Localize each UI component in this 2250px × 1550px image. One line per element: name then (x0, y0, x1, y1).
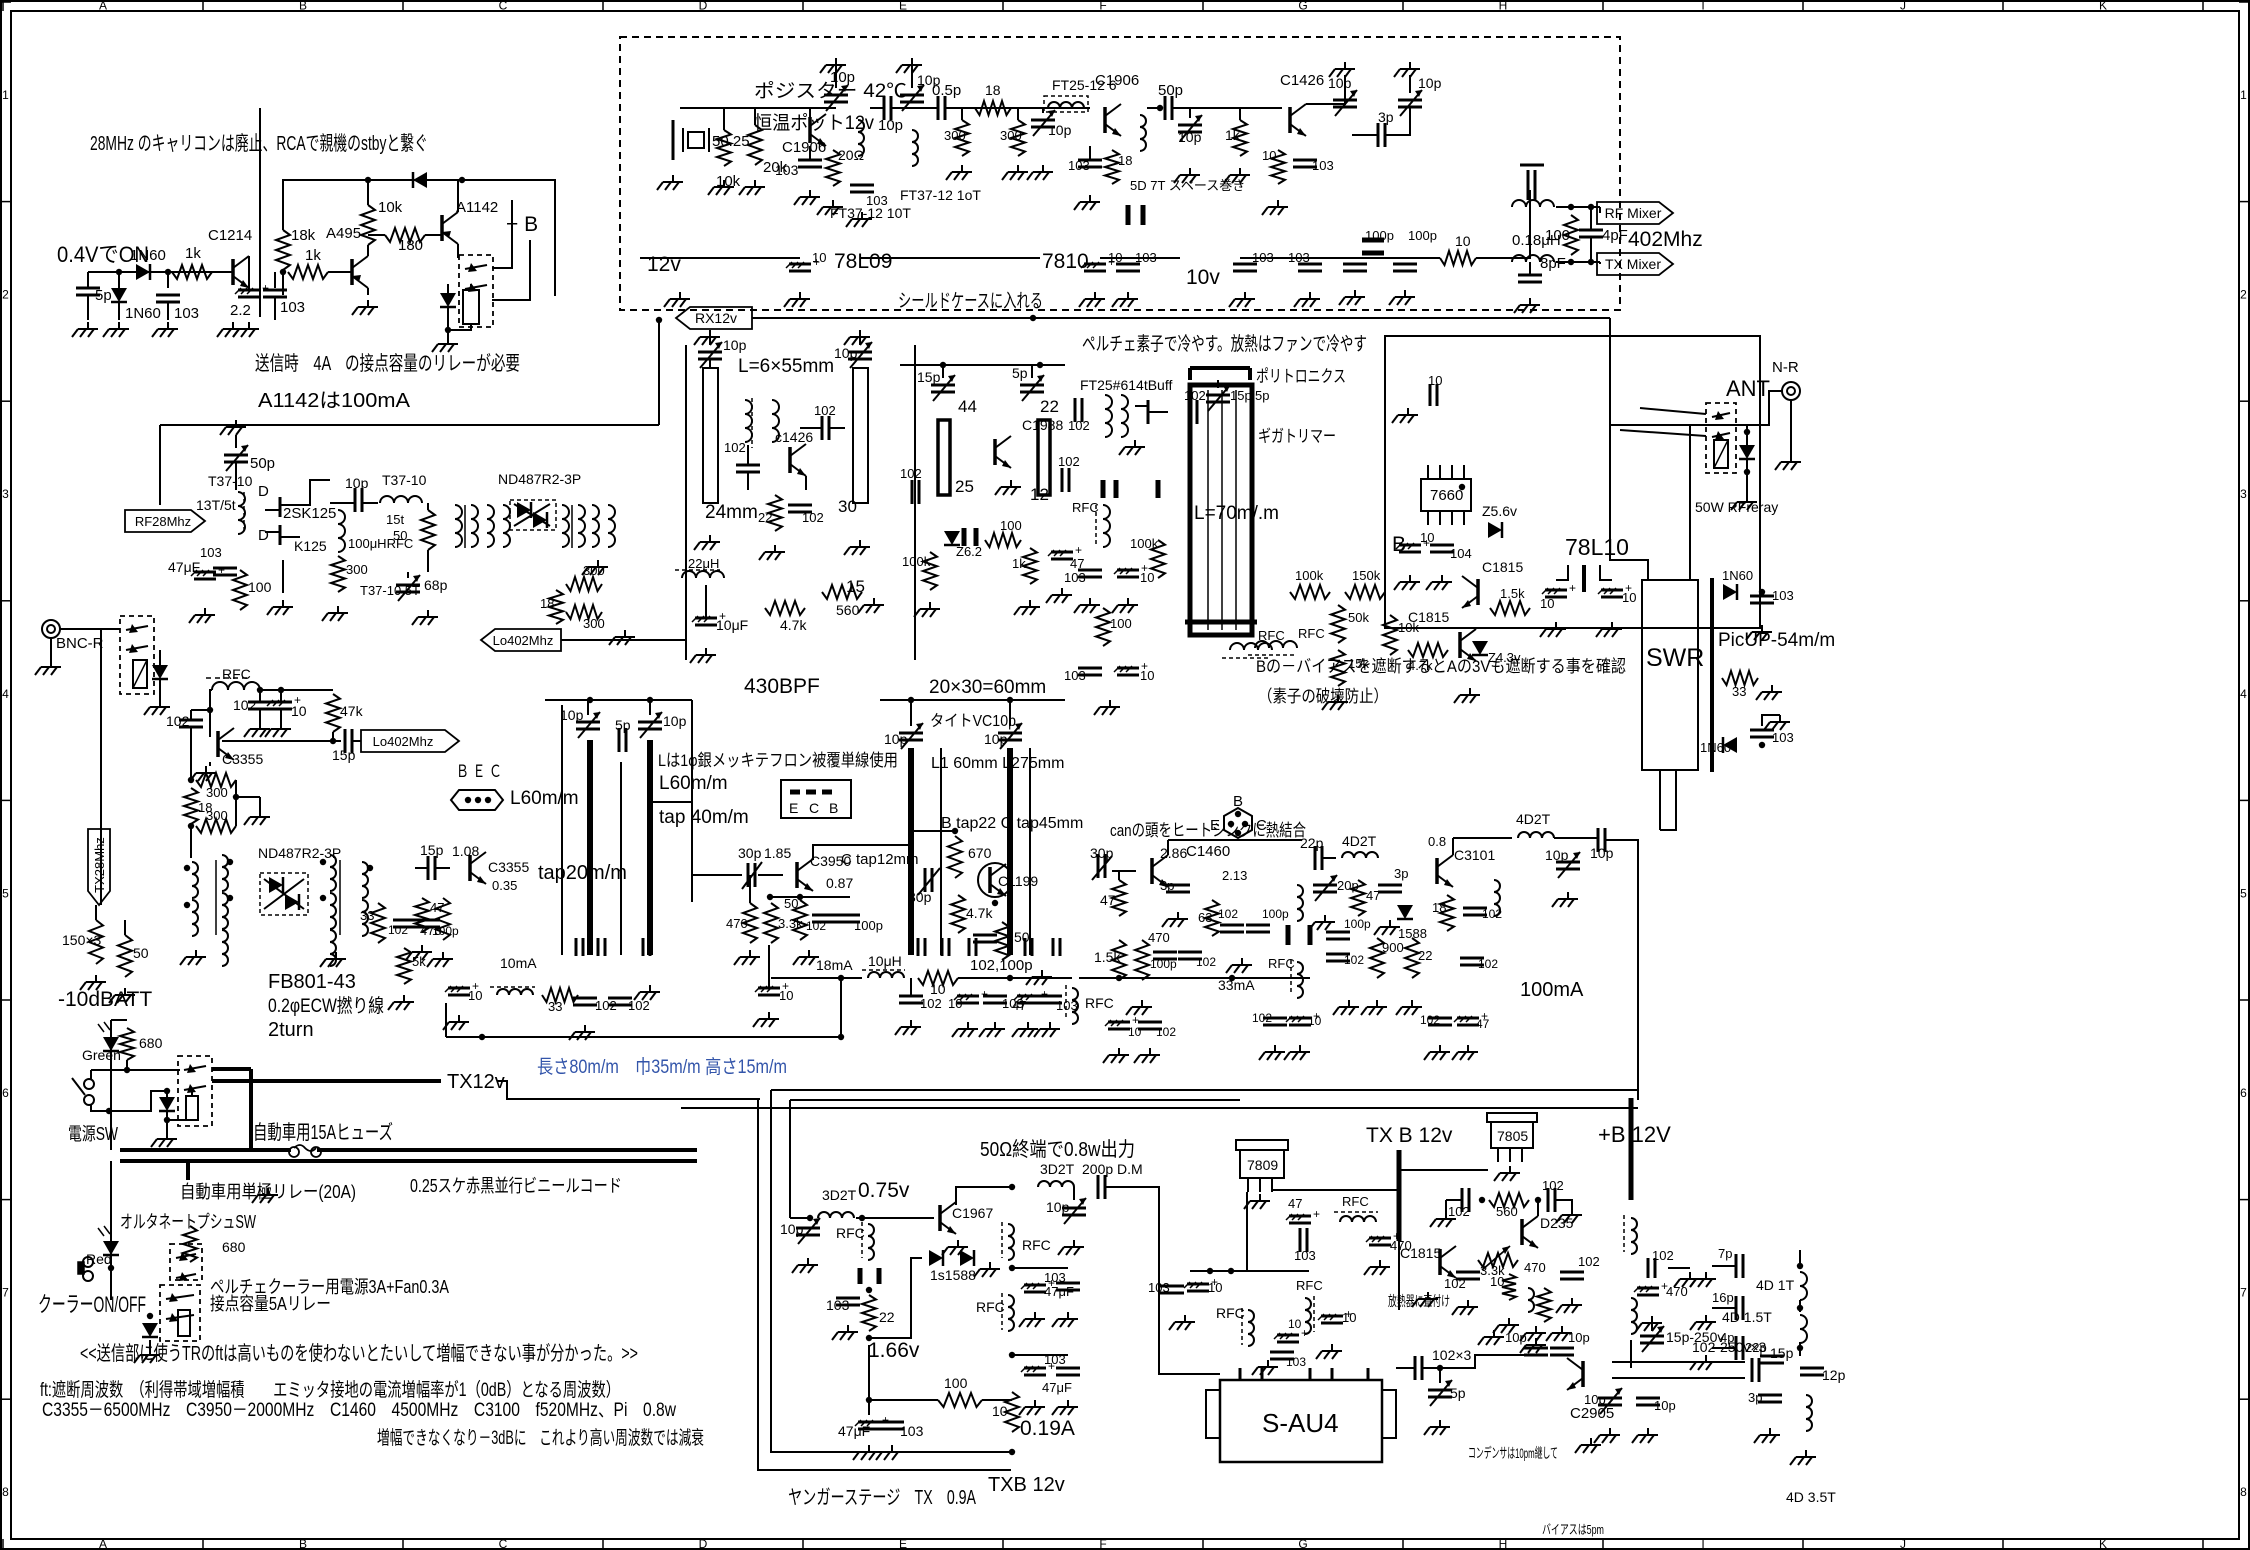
svg-text:B: B (299, 1537, 307, 1550)
capacitor 0.5p (925, 82, 961, 120)
svg-text:10: 10 (1622, 590, 1636, 605)
svg-text:7: 7 (2, 1286, 9, 1300)
transistor C1988 (995, 417, 1063, 468)
svg-text:Red: Red (86, 1251, 112, 1267)
svg-text:C1906: C1906 (1095, 72, 1139, 89)
svg-text:100p: 100p (854, 918, 883, 933)
svg-text:102: 102 (802, 510, 824, 525)
capacitor 103 r2 (1034, 996, 1078, 1037)
svg-text:103: 103 (866, 193, 888, 208)
svg-text:B: B (829, 800, 838, 816)
resistor 100k h (1290, 568, 1330, 599)
capacitor 102 r1 (895, 978, 942, 1035)
svg-text:470: 470 (1390, 1238, 1412, 1253)
svg-text:78L10: 78L10 (1565, 534, 1629, 560)
trimmer 30p r (908, 868, 940, 905)
svg-text:100: 100 (1110, 616, 1132, 631)
inductor FT37-12 1oT (900, 130, 981, 203)
label 10 t (1490, 1274, 1519, 1333)
svg-text:RFC: RFC (976, 1299, 1005, 1315)
svg-text:102: 102 (166, 713, 190, 729)
crystal 50.25 (673, 120, 750, 160)
capacitor 2.2 ecap (230, 256, 269, 319)
bias box (1385, 336, 1760, 628)
svg-text:放熱器に直付け: 放熱器に直付け (1388, 1293, 1450, 1309)
capacitor 100p m (1150, 952, 1177, 971)
wire down to bus (462, 180, 555, 296)
svg-text:30p: 30p (1090, 845, 1114, 861)
inductor T37-10 in (238, 483, 269, 544)
diode 1N60 shunt (111, 269, 161, 322)
transistor A495 (326, 225, 368, 288)
ic 7660 (1421, 465, 1471, 525)
capacitor 102x3 (1396, 1347, 1472, 1380)
svg-text:44: 44 (958, 397, 977, 416)
capacitor 200p (1098, 1175, 1105, 1199)
inductor FT37-12 10T (830, 120, 911, 221)
svg-text:2SK125: 2SK125 (283, 505, 336, 522)
svg-text:68p: 68p (424, 577, 448, 593)
trimmer 30p b (742, 862, 762, 889)
node drv4 (1009, 1449, 1015, 1455)
capacitor 103c (850, 185, 888, 208)
resistor 10 rail (1440, 233, 1476, 265)
svg-text:102: 102 (1196, 955, 1216, 969)
capacitor 102 t1 (1430, 1188, 1470, 1227)
svg-text:10p: 10p (1584, 1392, 1606, 1407)
diode Z4.3v (1472, 641, 1521, 665)
capacitor 103 buf2 (1064, 668, 1102, 683)
wire fet drains (300, 480, 330, 505)
wire coil2 (448, 324, 471, 330)
capacitor 47 reg (1286, 1196, 1320, 1223)
svg-text:L60m/m: L60m/m (659, 773, 728, 794)
wire drv base (856, 1215, 934, 1221)
wire flagstub2 (1599, 262, 1601, 264)
svg-text:103: 103 (1064, 668, 1086, 683)
relay coil box (463, 290, 479, 324)
resistor 470 c39 (726, 875, 757, 943)
capacitor 10p q2 (1550, 1330, 1590, 1355)
svg-text:4D 1T: 4D 1T (1756, 1277, 1795, 1293)
svg-text:30p: 30p (738, 845, 762, 861)
wire thick drop (249, 1069, 253, 1150)
resistor 33 s (1722, 671, 1758, 699)
inductor 100uHRFC (338, 510, 413, 552)
svg-text:103: 103 (775, 162, 799, 178)
svg-text:+: + (1569, 581, 1576, 595)
ground g12 (1339, 290, 1365, 305)
ground rx relay (144, 700, 170, 715)
ecap 47 m (1452, 1009, 1490, 1060)
wire drv2 row (1012, 1267, 1068, 1269)
ground xfmr (582, 560, 608, 575)
svg-text:RFC: RFC (1022, 1237, 1051, 1253)
ecap 10 l09 (784, 250, 826, 307)
inductor 4D2T b (1516, 811, 1554, 838)
svg-text:100p: 100p (1344, 917, 1371, 931)
flag TX Mixer (1597, 253, 1673, 275)
svg-text:680: 680 (222, 1239, 246, 1255)
svg-text:50k: 50k (1348, 610, 1369, 625)
wire cavf top (900, 362, 1065, 368)
ecap 10 buf (1112, 561, 1154, 613)
svg-text:TX28Mhz: TX28Mhz (92, 837, 107, 893)
svg-text:300: 300 (583, 563, 605, 578)
svg-text:102: 102 (1444, 1276, 1466, 1291)
stripline left edge (561, 705, 563, 955)
resistor 100 mix (1545, 204, 1578, 265)
wire c3950 coll (813, 845, 911, 860)
svg-text:RFC: RFC (222, 666, 251, 682)
svg-text:10p: 10p (1545, 847, 1569, 863)
svg-text:C3355: C3355 (222, 751, 263, 767)
capacitor 103 buf (1064, 570, 1102, 613)
ground NR (1775, 400, 1801, 470)
svg-text:4.7k: 4.7k (966, 905, 993, 921)
thick line swr (1710, 578, 1714, 772)
svg-text:FB801-43: FB801-43 (268, 971, 356, 993)
svg-text:30p: 30p (908, 889, 932, 905)
flag RF Mixer (1597, 202, 1673, 224)
ground gnd rfc (322, 606, 348, 621)
svg-text:RF28Mhz: RF28Mhz (135, 514, 191, 529)
inductor 4D1T (1756, 1272, 1807, 1300)
capacitor 102 m (1178, 952, 1216, 969)
capacitor 50p (1157, 82, 1183, 120)
svg-text:1.5k: 1.5k (1500, 586, 1525, 601)
wire tx12 elbow (497, 1081, 760, 1099)
transistor C1967 (940, 1202, 993, 1255)
trimmer 10p a (824, 65, 855, 111)
wire swr bottom (1659, 770, 1661, 830)
capacitor 4p (1690, 1330, 1743, 1370)
svg-text:5k: 5k (412, 954, 426, 969)
svg-text:103: 103 (1044, 1270, 1066, 1285)
svg-text:RFC: RFC (1072, 500, 1099, 515)
svg-text:N-R: N-R (1772, 359, 1799, 376)
svg-text:0.8: 0.8 (1428, 834, 1446, 849)
capacitor 5p strip (615, 717, 631, 752)
wire flagstub1 (1599, 207, 1601, 213)
wire fet src (282, 560, 284, 593)
capacitor 102 f2 (1058, 454, 1080, 492)
svg-text:10p: 10p (1590, 845, 1614, 861)
svg-text:102: 102 (1652, 1248, 1674, 1263)
wire drv fb (869, 1258, 922, 1338)
resistor 20ohm (826, 147, 864, 186)
varistor ant (1714, 440, 1728, 468)
svg-text:5: 5 (2, 886, 9, 900)
svg-text:B: B (1392, 533, 1406, 556)
inductor RFC p1 (1216, 1305, 1254, 1346)
svg-text:10p: 10p (1418, 75, 1442, 91)
resistor 22 m (1405, 938, 1432, 978)
pot 50k (1331, 605, 1369, 643)
svg-text:接点容量5Aリレー: 接点容量5Aリレー (210, 1294, 331, 1314)
svg-text:RX12v: RX12v (695, 310, 737, 326)
svg-text:Z6.2: Z6.2 (956, 544, 982, 559)
svg-text:4D2T: 4D2T (1516, 811, 1551, 827)
svg-text:100μHRFC: 100μHRFC (348, 536, 413, 551)
wire c3950 base (758, 874, 783, 876)
ground g4 (1002, 165, 1028, 180)
svg-text:47: 47 (1100, 892, 1116, 908)
wire red vert (110, 1161, 112, 1300)
svg-text:300: 300 (1000, 128, 1022, 143)
capacitor 102 m2 (1218, 907, 1244, 932)
box SWR (1642, 580, 1698, 770)
ecap 10 h3 (1540, 581, 1576, 637)
ground g5 (1027, 165, 1053, 180)
svg-text:24mm: 24mm (705, 502, 758, 523)
diode 1588 (1397, 905, 1427, 941)
svg-text:2.2: 2.2 (230, 302, 251, 319)
svg-text:E: E (899, 1537, 907, 1550)
resistor 1k input (172, 245, 212, 279)
inductor m coil (1297, 885, 1303, 921)
svg-text:103: 103 (1068, 158, 1090, 173)
capacitor 103 drv3 (1044, 1270, 1080, 1327)
ground ant (1731, 495, 1757, 510)
capacitor 103 s2 (1750, 730, 1794, 748)
svg-text:RF Mixer: RF Mixer (1605, 205, 1662, 221)
wire tap40 (650, 801, 692, 803)
svg-text:バイアスは5pm: バイアスは5pm (1542, 1522, 1604, 1537)
svg-text:102: 102 (806, 919, 826, 933)
ground cav2b (844, 540, 870, 555)
wire drv out (1105, 1187, 1220, 1374)
svg-text:D: D (699, 0, 708, 13)
resistor 1.5k m (1094, 940, 1126, 980)
resistor 100 buf (1096, 608, 1132, 646)
svg-text:C1426: C1426 (1280, 72, 1324, 89)
resistor 470 m (1135, 930, 1170, 980)
svg-text:1.5k: 1.5k (1094, 949, 1121, 965)
resistor 100 rx (233, 570, 272, 610)
wire mix rail (446, 1034, 844, 1040)
transformer buf (1105, 395, 1128, 437)
node drv3 (1009, 1352, 1015, 1358)
svg-text:7: 7 (2240, 1286, 2247, 1300)
svg-text:10p: 10p (1178, 129, 1202, 145)
wire relay left (100, 648, 102, 905)
svg-text:B tap22 C tap45mm: B tap22 C tap45mm (941, 815, 1083, 832)
svg-text:430BPF: 430BPF (744, 675, 820, 698)
capacitor 100p m2 (1246, 907, 1289, 932)
inductor RFC drv1 (836, 1222, 874, 1260)
svg-text:E: E (1210, 817, 1220, 834)
inductor 4D35T (1786, 1395, 1836, 1505)
capacitor 102 lo1 (233, 690, 272, 737)
svg-text:100p: 100p (1408, 228, 1437, 243)
svg-text:10: 10 (1308, 1014, 1322, 1028)
wire drv emitter (868, 1345, 870, 1415)
svg-text:47μF: 47μF (838, 1423, 870, 1439)
wire m top1 (1112, 870, 1136, 872)
svg-text:104: 104 (1450, 546, 1472, 561)
resistor 3.3k t arrow (1478, 1246, 1518, 1278)
svg-text:A: A (99, 1537, 107, 1550)
ground g osc7 (846, 212, 872, 227)
wire m rail (1079, 975, 1310, 981)
resistor 100k buf (1130, 536, 1165, 578)
transformer rx2 (487, 505, 510, 547)
capacitor 103 input (156, 272, 199, 322)
capacitor 3p m (1160, 878, 1190, 927)
svg-text:10p: 10p (663, 713, 687, 729)
svg-text:PicUP-54m/m: PicUP-54m/m (1718, 630, 1835, 651)
capacitor 103 drv2 (876, 1422, 924, 1460)
transformer rx3 (562, 505, 585, 548)
transistor c1426 cav (775, 429, 813, 476)
wire m top2 (1168, 840, 1302, 855)
svg-text:10p: 10p (830, 69, 855, 86)
svg-text:300: 300 (583, 616, 605, 631)
svg-text:100p: 100p (1150, 957, 1177, 971)
capacitor 100p b (1393, 228, 1437, 271)
ferrite buf (1103, 480, 1158, 498)
svg-text:470: 470 (1148, 930, 1170, 945)
wire cav e (805, 476, 807, 490)
svg-text:50: 50 (133, 945, 149, 961)
svg-text:L=70m/.m: L=70m/.m (1194, 503, 1279, 524)
wire A495 e (367, 288, 369, 295)
trimmer 15p f (917, 365, 955, 401)
svg-text:A495: A495 (326, 225, 361, 242)
svg-text:103: 103 (174, 305, 199, 322)
svg-text:78L09: 78L09 (834, 250, 892, 273)
wire rf drop (159, 425, 161, 505)
resistor 10k (361, 177, 403, 256)
svg-text:1.08: 1.08 (452, 843, 479, 859)
flag RX12v (676, 307, 752, 329)
fet buf (1135, 400, 1168, 424)
svg-text:電源SW: 電源SW (68, 1124, 118, 1144)
wire m out (1605, 840, 1638, 1100)
diode ant (1739, 425, 1755, 495)
svg-text:200p D.M: 200p D.M (1082, 1161, 1143, 1177)
svg-text:10p: 10p (723, 337, 747, 353)
svg-text:102: 102 (1478, 957, 1498, 971)
svg-text:2: 2 (2, 288, 9, 302)
resistor 10 e (1262, 148, 1285, 184)
inductor 22uH (675, 556, 724, 578)
ground 1s1588 (974, 1262, 1000, 1277)
resistor 18 x (540, 590, 563, 624)
ground cooler (134, 1340, 160, 1363)
resistor 50 rx (421, 503, 435, 572)
resistor 300 b (1000, 120, 1025, 156)
relay pwr dashed (178, 1056, 212, 1126)
capacitor 10p coupl (870, 96, 905, 134)
svg-text:+B 12V: +B 12V (1598, 1122, 1671, 1147)
svg-text:10mA: 10mA (500, 955, 537, 971)
capacitor 102 cav3 (788, 505, 824, 525)
svg-text:I: I (1701, 1537, 1704, 1550)
svg-text:E: E (789, 800, 798, 816)
svg-text:C3355－6500MHz C3950－2000MHz C1: C3355－6500MHz C3950－2000MHz C1460 4500MH… (42, 1400, 676, 1421)
ground gnd5 (152, 322, 178, 337)
svg-text:0.19A: 0.19A (1020, 1417, 1075, 1440)
resonator inner lines (1208, 390, 1236, 630)
svg-text:10: 10 (1420, 530, 1434, 545)
stripline bar4 (1038, 420, 1050, 495)
fuse (289, 1145, 321, 1157)
svg-text:-10dBATT: -10dBATT (58, 988, 152, 1011)
stripline bar2 (838, 368, 868, 596)
svg-text:T37-10: T37-10 (382, 472, 427, 488)
svg-text:ANT: ANT (1726, 376, 1770, 401)
svg-text:FT37-12 1oT: FT37-12 1oT (900, 187, 981, 203)
svg-text:B: B (299, 0, 307, 13)
resonator box (1190, 385, 1252, 635)
capacitor 10p q1 (1505, 1330, 1548, 1355)
ground pwr relay (151, 1120, 177, 1147)
shield case dashed box (620, 37, 1620, 310)
ground g osc3 (708, 180, 734, 195)
trimmer 5p out (1424, 1365, 1466, 1435)
capacitor 103 drv (826, 1297, 860, 1340)
wire out pair1 (1612, 1361, 1745, 1363)
resistor 300 x2 (566, 605, 605, 631)
ecap 10 buf2 (1114, 659, 1154, 683)
transistor C1906 osc (775, 114, 826, 178)
svg-text:RFC: RFC (836, 1225, 865, 1241)
wire m top3 (1322, 857, 1336, 859)
resistor 10 drv (992, 1392, 1019, 1432)
ground gnd3 (72, 322, 98, 337)
wire drv in (790, 1215, 813, 1221)
inductor RFC tx (490, 987, 535, 995)
svg-text:Lは1φ銀メッキテフロン被覆単線使用: Lは1φ銀メッキテフロン被覆単線使用 (658, 750, 898, 770)
wire mixtop (1556, 206, 1600, 208)
ground g osc4 (739, 180, 765, 195)
svg-text:1N60: 1N60 (130, 247, 166, 264)
wire lo flag (561, 639, 686, 641)
svg-text:102: 102 (1252, 1011, 1272, 1025)
resistor 22 cav (758, 495, 782, 531)
led red (86, 1226, 119, 1267)
svg-text:3p: 3p (1378, 109, 1394, 125)
wire osc stems (724, 107, 1240, 130)
capacitor 15p tx (415, 842, 450, 880)
resistor 47k lo (326, 694, 364, 744)
wire ant1 (1610, 391, 1782, 425)
capacitor 8pF (1514, 255, 1566, 313)
svg-text:16p: 16p (1712, 1290, 1734, 1305)
svg-text:A1142は100mA: A1142は100mA (258, 390, 411, 412)
capacitor 102 c39 (806, 915, 836, 933)
svg-text:C3101: C3101 (1454, 847, 1495, 863)
capacitor 22p m (1300, 835, 1324, 870)
svg-text:ND487R2-3P: ND487R2-3P (498, 471, 581, 487)
ground cav3 (759, 545, 785, 560)
bus main upper (120, 1148, 697, 1152)
svg-text:10: 10 (930, 981, 946, 997)
svg-text:RFC: RFC (1216, 1305, 1245, 1321)
driver box outer (758, 1099, 1011, 1470)
capacitor 102 m6 (1420, 1013, 1452, 1060)
trimmer 10p drv2 (1046, 1187, 1086, 1255)
svg-text:12v: 12v (647, 253, 681, 276)
svg-text:47: 47 (1366, 888, 1380, 903)
svg-text:10: 10 (291, 703, 307, 719)
resonator cap top (1190, 368, 1250, 380)
capacitor 102 m3 (1134, 1022, 1176, 1063)
ground g osc5 (794, 190, 820, 205)
ground t2 (1556, 1208, 1582, 1223)
